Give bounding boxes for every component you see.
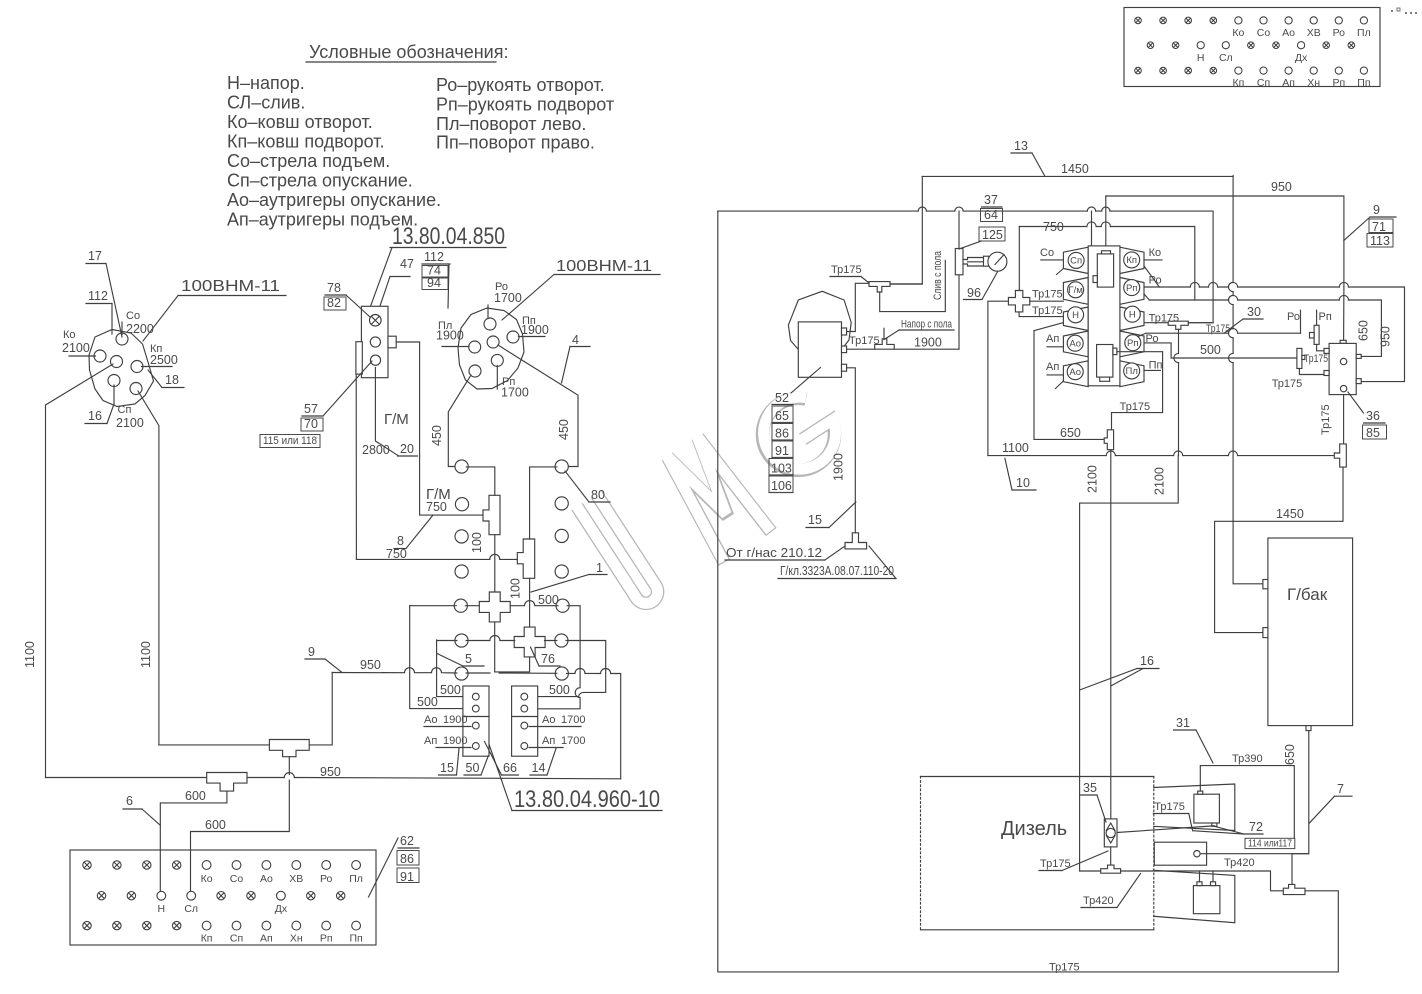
svg-text:1: 1	[596, 561, 603, 575]
svg-text:125: 125	[982, 228, 1003, 242]
svg-text:64: 64	[984, 208, 998, 222]
svg-text:113: 113	[1370, 234, 1390, 248]
svg-text:Сл: Сл	[184, 903, 198, 915]
svg-text:86: 86	[400, 852, 414, 866]
svg-text:600: 600	[185, 789, 206, 803]
svg-text:Пл: Пл	[349, 873, 363, 885]
svg-text:76: 76	[541, 652, 555, 666]
svg-text:Пл: Пл	[1357, 27, 1371, 39]
svg-text:78: 78	[327, 281, 341, 295]
svg-text:Дизель: Дизель	[1001, 818, 1067, 840]
svg-text:Пл: Пл	[1126, 366, 1138, 377]
svg-text:Ао: Ао	[1069, 367, 1081, 378]
svg-text:52: 52	[775, 391, 789, 405]
svg-text:2500: 2500	[150, 353, 178, 367]
svg-text:Тр175: Тр175	[849, 335, 880, 347]
svg-text:7: 7	[1337, 782, 1344, 796]
svg-text:Ап: Ап	[542, 735, 555, 747]
svg-text:72: 72	[1249, 820, 1263, 834]
svg-text:Ко: Ко	[1149, 247, 1162, 259]
svg-text:Рп: Рп	[1332, 77, 1345, 89]
svg-text:Н: Н	[158, 903, 166, 915]
svg-text:2100: 2100	[1086, 465, 1100, 493]
svg-text:1900: 1900	[443, 735, 467, 747]
svg-text:100ВНМ-11: 100ВНМ-11	[181, 278, 280, 295]
svg-text:Ао: Ао	[1069, 338, 1081, 349]
svg-text:13: 13	[1014, 139, 1028, 153]
svg-text:14: 14	[532, 761, 546, 775]
svg-text:Г/м: Г/м	[1068, 285, 1082, 296]
svg-text:70: 70	[304, 417, 318, 431]
svg-text:57: 57	[304, 402, 318, 416]
svg-text:Пл–поворот лево.: Пл–поворот лево.	[436, 114, 586, 134]
svg-text:6: 6	[126, 794, 133, 808]
svg-text:31: 31	[1176, 716, 1190, 730]
svg-text:Тр175: Тр175	[831, 264, 862, 276]
svg-text:96: 96	[967, 286, 981, 300]
svg-text:Условные обозначения:: Условные обозначения:	[309, 42, 508, 62]
svg-text:450: 450	[557, 419, 571, 440]
svg-text:50: 50	[466, 761, 480, 775]
svg-text:5: 5	[465, 652, 472, 666]
svg-text:Тр175: Тр175	[1320, 404, 1332, 435]
svg-text:Со: Со	[230, 873, 244, 885]
svg-text:Ко: Ко	[63, 329, 76, 341]
svg-text:15: 15	[440, 761, 454, 775]
svg-text:1900: 1900	[832, 453, 846, 481]
svg-text:2800: 2800	[362, 443, 390, 457]
svg-text:ХВ: ХВ	[289, 873, 303, 885]
svg-text:85: 85	[1366, 426, 1380, 440]
svg-text:Пп: Пп	[1357, 77, 1370, 89]
svg-text:103: 103	[771, 462, 792, 476]
svg-text:Рп: Рп	[1127, 338, 1138, 349]
svg-text:500: 500	[549, 683, 570, 697]
svg-text:Тр175: Тр175	[1049, 962, 1080, 974]
svg-text:Сп: Сп	[1070, 256, 1082, 267]
svg-text:91: 91	[400, 870, 414, 884]
svg-text:СЛ–слив.: СЛ–слив.	[227, 93, 305, 113]
svg-text:Кп: Кп	[1232, 77, 1244, 89]
svg-text:Напор с пола: Напор с пола	[901, 319, 953, 331]
svg-text:1450: 1450	[1061, 162, 1089, 176]
svg-text:Дх: Дх	[275, 903, 288, 915]
svg-text:Г/кл.3323А.08.07.110-20: Г/кл.3323А.08.07.110-20	[780, 564, 894, 578]
svg-text:Сп–стрела опускание.: Сп–стрела опускание.	[227, 171, 413, 191]
svg-text:Рп: Рп	[320, 933, 333, 945]
svg-text:Ко: Ко	[201, 873, 213, 885]
svg-text:650: 650	[1357, 320, 1371, 341]
svg-text:66: 66	[503, 761, 517, 775]
svg-text:Н: Н	[1072, 310, 1079, 321]
svg-text:4: 4	[572, 333, 579, 347]
svg-text:Рп: Рп	[1319, 311, 1332, 323]
svg-text:650: 650	[1060, 426, 1081, 440]
svg-text:16: 16	[1140, 654, 1154, 668]
svg-text:Дх: Дх	[1295, 52, 1308, 64]
svg-text:114 или117: 114 или117	[1248, 839, 1292, 850]
svg-text:2200: 2200	[126, 322, 154, 336]
svg-text:Рп–рукоять подворот: Рп–рукоять подворот	[436, 95, 614, 115]
svg-text:Сп: Сп	[230, 933, 243, 945]
svg-text:950: 950	[360, 658, 381, 672]
svg-text:Ап: Ап	[260, 933, 273, 945]
svg-text:950: 950	[320, 765, 341, 779]
svg-text:Ао: Ао	[542, 714, 555, 726]
svg-text:8: 8	[397, 534, 404, 548]
svg-text:100: 100	[470, 532, 484, 553]
svg-text:100ВНМ-11: 100ВНМ-11	[556, 258, 652, 275]
svg-text:Ао–аутригеры опускание.: Ао–аутригеры опускание.	[227, 190, 441, 210]
svg-text:Ро: Ро	[320, 873, 333, 885]
svg-text:Слив с пола: Слив с пола	[932, 250, 944, 300]
svg-text:47: 47	[400, 257, 414, 271]
svg-text:Пп: Пп	[349, 933, 362, 945]
svg-text:115 или 118: 115 или 118	[263, 435, 317, 447]
svg-text:100: 100	[509, 578, 523, 599]
svg-text:1450: 1450	[1276, 507, 1304, 521]
svg-text:16: 16	[88, 409, 102, 423]
svg-text:500: 500	[440, 683, 461, 697]
svg-text:1100: 1100	[1002, 441, 1029, 455]
svg-text:Сл: Сл	[1219, 52, 1233, 64]
svg-text:Г/М: Г/М	[384, 411, 409, 428]
svg-text:Ао: Ао	[1282, 27, 1295, 39]
svg-text:Ро: Ро	[1287, 311, 1300, 323]
svg-text:1700: 1700	[561, 714, 585, 726]
svg-text:Ап–аутригеры подъем.: Ап–аутригеры подъем.	[227, 210, 418, 230]
svg-text:13.80.04.850: 13.80.04.850	[392, 223, 505, 250]
svg-text:86: 86	[775, 427, 789, 441]
svg-text:18: 18	[165, 373, 179, 387]
svg-text:Со–стрела подъем.: Со–стрела подъем.	[227, 151, 390, 171]
svg-text:71: 71	[1372, 220, 1386, 234]
svg-text:Сп: Сп	[118, 404, 132, 416]
svg-text:1700: 1700	[494, 291, 522, 305]
svg-text:Сп: Сп	[1257, 77, 1270, 89]
svg-text:2100: 2100	[62, 341, 90, 355]
svg-text:Тр175: Тр175	[1032, 289, 1063, 301]
svg-text:Тр175: Тр175	[1272, 378, 1303, 390]
svg-text:Пп: Пп	[1149, 360, 1163, 372]
svg-text:1900: 1900	[436, 329, 464, 343]
svg-text:Тр175: Тр175	[1032, 305, 1063, 317]
svg-text:37: 37	[984, 193, 998, 207]
svg-text:112: 112	[424, 250, 444, 264]
svg-text:80: 80	[591, 488, 605, 502]
svg-text:1900: 1900	[914, 336, 942, 350]
svg-text:Ап: Ап	[424, 735, 437, 747]
svg-text:9: 9	[308, 645, 315, 659]
svg-text:2100: 2100	[116, 416, 144, 430]
svg-text:750: 750	[1043, 220, 1064, 234]
svg-text:36: 36	[1366, 409, 1380, 423]
svg-text:Кп: Кп	[201, 933, 213, 945]
svg-text:450: 450	[430, 425, 444, 446]
svg-text:Ап: Ап	[1046, 361, 1059, 373]
svg-text:112: 112	[88, 289, 108, 303]
svg-text:91: 91	[775, 444, 789, 458]
svg-text:Ко–ковш отворот.: Ко–ковш отворот.	[227, 112, 373, 132]
svg-text:20: 20	[400, 442, 414, 456]
svg-text:Тр175: Тр175	[1206, 323, 1230, 335]
svg-text:Пп–поворот право.: Пп–поворот право.	[436, 133, 595, 153]
svg-text:35: 35	[1083, 781, 1097, 795]
svg-text:106: 106	[771, 479, 792, 493]
svg-text:600: 600	[205, 818, 226, 832]
svg-text:Тр175: Тр175	[1154, 801, 1185, 813]
svg-text:Ао: Ао	[424, 714, 437, 726]
svg-text:950: 950	[1271, 180, 1292, 194]
svg-text:500: 500	[538, 593, 559, 607]
svg-text:Тр420: Тр420	[1083, 895, 1114, 907]
svg-text:500: 500	[1200, 343, 1221, 357]
svg-text:Ап: Ап	[1046, 333, 1059, 345]
svg-text:Хн: Хн	[290, 933, 303, 945]
svg-text:Ро: Ро	[1333, 27, 1346, 39]
svg-text:13.80.04.960-10: 13.80.04.960-10	[514, 786, 660, 813]
svg-text:Г/бак: Г/бак	[1287, 585, 1328, 604]
svg-text:Н: Н	[1197, 52, 1205, 64]
svg-text:2100: 2100	[1153, 467, 1167, 495]
svg-text:ХВ: ХВ	[1307, 27, 1321, 39]
svg-text:65: 65	[775, 409, 789, 423]
svg-text:Кп: Кп	[1126, 255, 1137, 266]
svg-text:15: 15	[808, 513, 822, 527]
svg-text:17: 17	[88, 249, 102, 263]
svg-text:Со: Со	[1257, 27, 1271, 39]
svg-text:1900: 1900	[443, 714, 467, 726]
svg-text:Н–напор.: Н–напор.	[227, 73, 305, 93]
svg-text:Со: Со	[126, 310, 140, 322]
svg-text:750: 750	[426, 500, 447, 514]
svg-text:Тр390: Тр390	[1232, 753, 1263, 765]
svg-text:От г/нас 210.12: От г/нас 210.12	[726, 546, 822, 560]
svg-text:Ко: Ко	[1232, 27, 1244, 39]
svg-text:Со: Со	[1040, 247, 1054, 259]
svg-text:Ап: Ап	[1282, 77, 1295, 89]
svg-text:Тр175: Тр175	[1120, 401, 1151, 413]
svg-text:1700: 1700	[561, 735, 585, 747]
svg-text:Кп–ковш подворот.: Кп–ковш подворот.	[227, 132, 384, 152]
svg-text:62: 62	[400, 834, 414, 848]
svg-text:30: 30	[1247, 305, 1261, 319]
svg-text:Тр420: Тр420	[1224, 857, 1255, 869]
svg-text:9: 9	[1373, 203, 1380, 217]
svg-text:650: 650	[1283, 744, 1297, 765]
svg-text:10: 10	[1016, 476, 1030, 490]
svg-text:Рп: Рп	[1126, 283, 1137, 294]
svg-text:82: 82	[327, 296, 341, 310]
svg-text:Н: Н	[1129, 309, 1136, 320]
svg-text:1100: 1100	[139, 641, 153, 668]
svg-text:Ао: Ао	[260, 873, 273, 885]
svg-text:Ро–рукоять отворот.: Ро–рукоять отворот.	[436, 75, 605, 95]
svg-text:Тр175: Тр175	[1304, 353, 1328, 365]
svg-text:500: 500	[417, 695, 438, 709]
svg-text:950: 950	[1379, 326, 1393, 347]
svg-text:1100: 1100	[23, 641, 37, 668]
svg-text:1700: 1700	[501, 386, 529, 400]
svg-text:Хн: Хн	[1307, 77, 1320, 89]
svg-text:1900: 1900	[521, 323, 549, 337]
